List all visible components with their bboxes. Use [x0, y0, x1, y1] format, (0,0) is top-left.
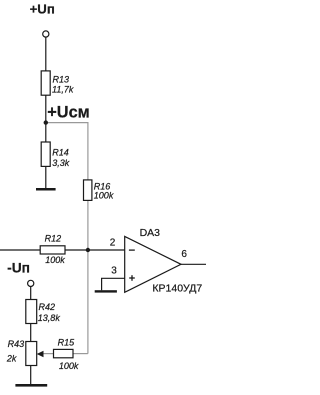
- svg-text:13,8k: 13,8k: [38, 313, 61, 323]
- svg-text:100k: 100k: [59, 361, 79, 371]
- svg-text:R43: R43: [8, 339, 25, 349]
- svg-text:КР140УД7: КР140УД7: [152, 282, 202, 294]
- svg-text:R15: R15: [58, 337, 76, 347]
- svg-text:11,7k: 11,7k: [52, 84, 74, 94]
- svg-text:+Uсм: +Uсм: [47, 104, 89, 122]
- svg-text:+Uп: +Uп: [30, 2, 55, 17]
- svg-text:3: 3: [111, 266, 117, 277]
- svg-text:R42: R42: [39, 302, 56, 312]
- svg-text:100k: 100k: [45, 255, 65, 265]
- svg-text:-Uп: -Uп: [7, 261, 30, 276]
- svg-text:DA3: DA3: [140, 227, 161, 239]
- svg-text:3,3k: 3,3k: [52, 158, 70, 168]
- svg-text:R13: R13: [53, 75, 70, 85]
- svg-text:2k: 2k: [6, 354, 17, 364]
- svg-text:R12: R12: [45, 233, 62, 243]
- svg-text:R14: R14: [52, 148, 69, 158]
- svg-text:100k: 100k: [94, 190, 114, 200]
- svg-text:6: 6: [181, 249, 187, 260]
- svg-text:2: 2: [110, 238, 116, 249]
